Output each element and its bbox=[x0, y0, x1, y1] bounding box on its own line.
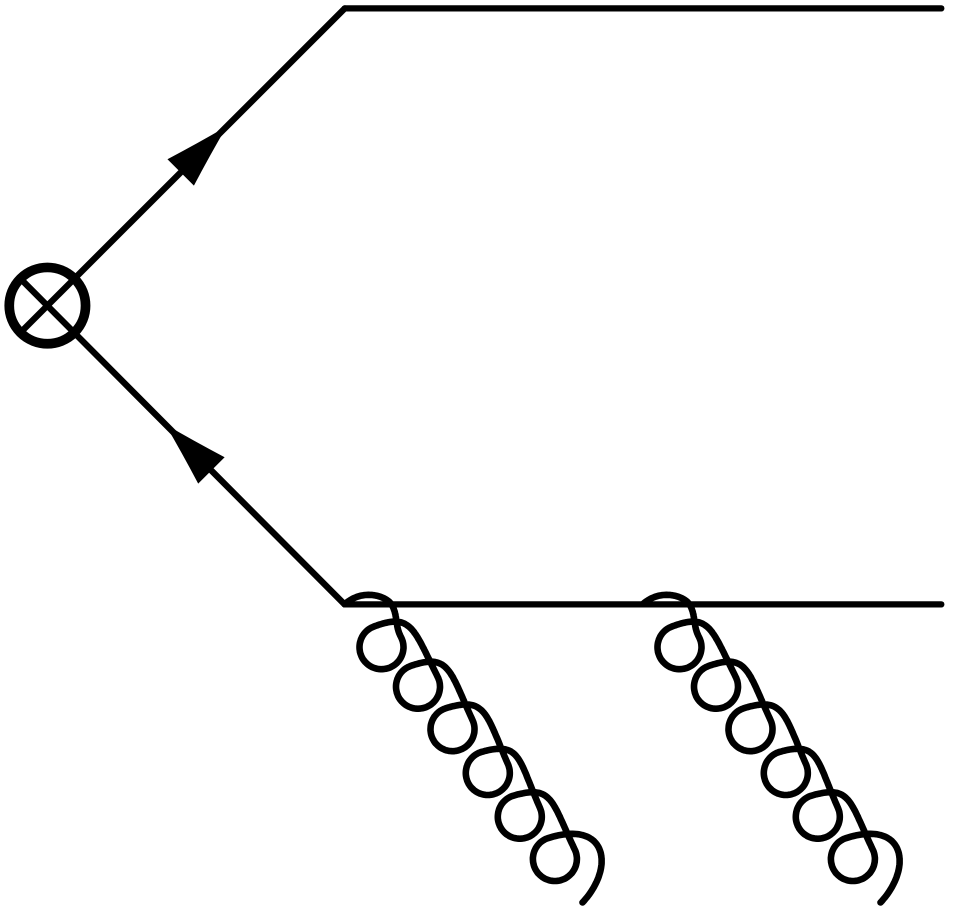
upper fermion line (outgoing quark) bbox=[20, 8, 344, 332]
top horizontal fermion line bbox=[345, 5, 942, 11]
arrow on lower fermion line bbox=[152, 411, 225, 484]
arrow on upper fermion line bbox=[152, 113, 240, 484]
gluon g1 bbox=[346, 595, 602, 903]
bottom horizontal fermion line bbox=[345, 601, 942, 607]
gluon g2 bbox=[644, 595, 900, 903]
vertex circle bbox=[9, 267, 85, 343]
lower fermion line (incoming quark) bbox=[20, 279, 344, 605]
